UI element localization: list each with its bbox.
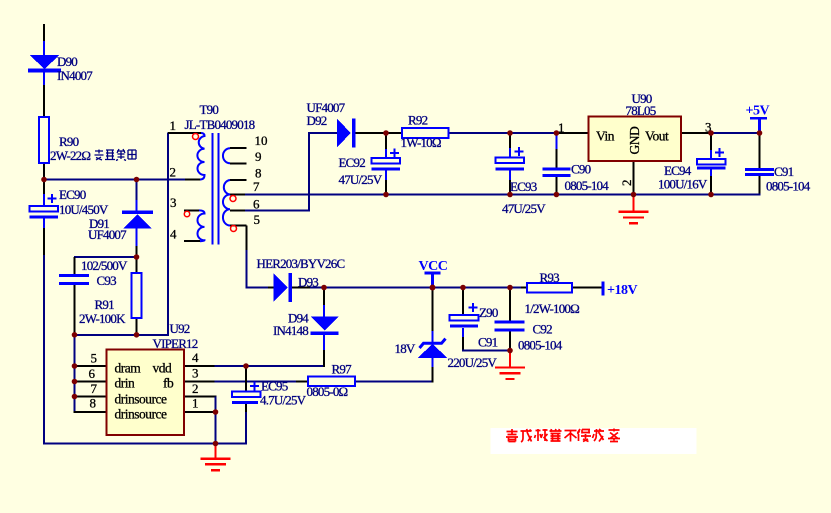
svg-text:EC95: EC95 [261, 379, 288, 394]
resistor R90 [39, 117, 49, 163]
wire snubber bottom horizontal [74, 334, 170, 336]
svg-text:EC90: EC90 [59, 187, 86, 202]
wire D91 leads [136, 180, 138, 202]
svg-text:2W-22Ω: 2W-22Ω [50, 148, 90, 163]
svg-text:R91: R91 [95, 297, 115, 312]
svg-text:0805-0Ω: 0805-0Ω [307, 384, 348, 399]
wire EC95 top lead [245, 366, 247, 392]
transformer T90 core [213, 133, 219, 245]
wire VCC stem [431, 273, 434, 288]
capacitor C92 [495, 320, 525, 331]
svg-text:IN4007: IN4007 [57, 68, 93, 83]
power +5V port bar [750, 117, 767, 120]
capacitor EC94 [697, 148, 726, 169]
wire D90 to R90 [43, 72, 45, 85]
diode D91 [122, 211, 153, 229]
ground at U90 pin2 [619, 195, 649, 223]
wire C91cap branch vertical [462, 288, 464, 316]
capacitor EC93 [496, 147, 525, 170]
transformer polarity dot pin5 [231, 226, 237, 232]
svg-text:EC93: EC93 [510, 179, 537, 194]
svg-text:102/500V: 102/500V [81, 258, 128, 273]
wire C93 top lead [74, 257, 76, 275]
svg-text:4: 4 [170, 227, 177, 242]
node EC94 top [708, 130, 714, 136]
svg-text:2: 2 [619, 180, 634, 187]
svg-text:+18V: +18V [607, 283, 637, 298]
wire vdd node to D94 [246, 365, 325, 367]
capacitor C91 220U [450, 303, 479, 328]
svg-text:2W-100K: 2W-100K [79, 311, 126, 326]
diode D94 [311, 317, 339, 336]
svg-text:VIPER12: VIPER12 [153, 336, 198, 351]
diode D93 [274, 273, 293, 302]
svg-text:3: 3 [192, 366, 199, 381]
svg-text:2: 2 [192, 381, 199, 396]
wire transformer pin5 down [246, 226, 248, 252]
wire EC94 leads [710, 133, 712, 151]
wire U90 pin3 to +5V [681, 132, 712, 134]
wire C90 leads [555, 133, 557, 150]
svg-text:C91: C91 [774, 164, 794, 179]
node C90 top [554, 130, 560, 136]
svg-text:Z90: Z90 [479, 305, 498, 320]
svg-text:8: 8 [90, 396, 97, 411]
svg-text:5: 5 [254, 212, 261, 227]
capacitor C91 output [745, 168, 774, 176]
wire EC95 bottom lead [245, 404, 247, 413]
svg-text:vdd: vdd [153, 361, 173, 376]
wire R90 to node A [43, 163, 45, 180]
svg-text:+5V: +5V [746, 104, 770, 119]
transformer polarity dot pin3 [184, 211, 189, 216]
wire bottom rail left [43, 443, 247, 445]
node +5V [757, 130, 763, 136]
transformer T90 winding pins 10-9 [223, 148, 247, 163]
svg-text:D90: D90 [57, 54, 77, 69]
wire AC input stub top [43, 24, 45, 41]
svg-text:47U/25V: 47U/25V [502, 201, 546, 216]
svg-text:D92: D92 [307, 113, 327, 128]
wire transformer pin1 vertical [167, 133, 169, 336]
wire EC92 leads [385, 133, 387, 150]
svg-text:18V: 18V [395, 341, 416, 356]
wire R93 right lead to +18V [572, 287, 602, 289]
svg-text:C91: C91 [478, 335, 498, 350]
wire R97 right to zener [355, 381, 434, 383]
node VCC [430, 285, 436, 291]
transformer polarity dot pin7 [230, 196, 236, 202]
svg-text:R90: R90 [59, 134, 79, 149]
wire C91 branch vertical [759, 133, 761, 168]
ground at U92 source [201, 444, 231, 470]
svg-text:R93: R93 [540, 270, 560, 285]
svg-text:10: 10 [255, 133, 268, 148]
node D91 top [134, 177, 140, 183]
wire pin2 down to ground rail [215, 397, 217, 445]
wire C92 branch vertical [509, 288, 511, 323]
node T90 pin numbers [170, 118, 268, 242]
wire EC93 leads [509, 133, 511, 149]
wire U92 pin7 lead [74, 396, 107, 398]
pin names U92 [115, 361, 174, 422]
wire node A to EC90 [43, 180, 45, 194]
svg-text:10U/450V: 10U/450V [59, 202, 109, 217]
wire D93 to VCC rail [292, 287, 311, 289]
svg-text:6: 6 [89, 366, 96, 381]
svg-text:D93: D93 [298, 275, 318, 290]
svg-text:1/2W-100Ω: 1/2W-100Ω [525, 301, 580, 316]
node U92 pin1 [213, 409, 219, 415]
svg-text:Vout: Vout [645, 129, 669, 144]
svg-text:7: 7 [253, 179, 260, 194]
svg-text:drin: drin [115, 376, 135, 391]
svg-text:47U/25V: 47U/25V [339, 172, 383, 187]
diode D92 [337, 119, 356, 148]
wire U92 pin2 lead [184, 396, 217, 398]
svg-text:dram: dram [115, 361, 142, 376]
node EC92 top [383, 130, 389, 136]
svg-text:220U/25V: 220U/25V [448, 355, 498, 370]
node snubber top [134, 254, 140, 260]
node U92 pin7 [72, 394, 78, 400]
node EC93 top [507, 130, 513, 136]
node U92 pin numbers [89, 350, 200, 411]
node EC93 bottom [507, 192, 513, 198]
svg-text:5: 5 [91, 351, 98, 366]
wire +5V stem [758, 118, 761, 134]
capacitor C93 [59, 274, 89, 285]
wire U92 pin1 lead [184, 411, 217, 413]
node ground rail U92 [213, 441, 219, 447]
transformer T90 primary winding pins 1-2 [168, 133, 205, 180]
ground at C91 C92 [495, 351, 525, 380]
svg-text:IN4148: IN4148 [273, 323, 308, 338]
resistor R92 [402, 128, 449, 138]
svg-text:C92: C92 [533, 322, 553, 337]
power +18V port bar [602, 282, 605, 296]
wire D90 top lead [43, 41, 45, 56]
op-amp U90 regulator 78L05 body [589, 117, 682, 162]
node D93 cathode [321, 285, 327, 291]
wire U92 pin5 lead [74, 365, 107, 367]
node A R90-EC90 [41, 177, 47, 183]
watermark red chinese text [506, 429, 620, 443]
svg-text:drinsource: drinsource [115, 392, 167, 407]
wire R91 bottom lead [136, 318, 138, 335]
capacitor EC95 [232, 382, 260, 405]
svg-text:4.7U/25V: 4.7U/25V [260, 393, 307, 408]
wire transformer pin6 to D92 [230, 210, 245, 212]
wire D94 branch vertical [323, 288, 325, 307]
wire U92 pin4 lead [184, 365, 215, 367]
node C90 bottom [554, 192, 560, 198]
svg-text:R92: R92 [408, 113, 428, 128]
wire U92 pin8 lead [74, 411, 107, 413]
wire EC90 down left rail [43, 218, 45, 228]
resistor R91 [132, 273, 142, 318]
power VCC port bar [425, 272, 441, 275]
node C91 220U top [460, 285, 466, 291]
svg-text:EC92: EC92 [339, 155, 366, 170]
node EC92 bottom [383, 192, 389, 198]
wire C91cap C92 bottom horizontal [462, 350, 511, 352]
wire zener branch vertical [432, 288, 434, 333]
node snubber bottom right [134, 332, 140, 338]
node C92 top [507, 285, 513, 291]
wire node A horizontal to transformer pin2 [43, 179, 185, 181]
svg-text:C90: C90 [571, 162, 591, 177]
svg-text:fb: fb [163, 376, 174, 391]
capacitor EC92 [372, 149, 401, 171]
zener Z90 [418, 339, 448, 358]
svg-text:HER203/BYV26C: HER203/BYV26C [257, 256, 345, 271]
wire C93 bottom lead [74, 285, 76, 336]
svg-text:78L05: 78L05 [626, 103, 656, 118]
svg-text:1: 1 [192, 396, 199, 411]
svg-text:UF4007: UF4007 [88, 227, 127, 242]
node U92 pin5 [72, 363, 78, 369]
svg-text:Vin: Vin [596, 129, 615, 144]
resistor R93 [527, 283, 572, 293]
svg-text:0805-104: 0805-104 [766, 179, 811, 194]
wire secondary ground rail [230, 194, 245, 196]
pin names U90 [596, 126, 669, 154]
svg-text:1W-10Ω: 1W-10Ω [401, 135, 441, 150]
svg-text:C93: C93 [97, 273, 117, 288]
svg-text:3: 3 [170, 195, 177, 210]
svg-text:T90: T90 [200, 102, 219, 117]
svg-text:4: 4 [192, 350, 199, 365]
svg-text:VCC: VCC [419, 259, 448, 274]
diode D90 [28, 55, 61, 72]
node snubber bottom left [72, 332, 78, 338]
resistor R97 [308, 377, 355, 387]
watermark white box [491, 428, 697, 454]
node U90 GND [631, 192, 637, 198]
svg-text:0805-104: 0805-104 [518, 338, 563, 353]
svg-text:R97: R97 [332, 362, 353, 377]
svg-text:9: 9 [255, 149, 262, 164]
wire R93 left lead [521, 287, 527, 289]
svg-text:100U/16V: 100U/16V [658, 177, 708, 192]
wire R92 to U90 pin1 [449, 132, 558, 134]
node C91 C92 gnd [507, 348, 513, 354]
wire R91 top lead [136, 257, 138, 273]
node vdd EC95 [243, 363, 249, 369]
wire U92 left bus [74, 334, 76, 413]
svg-text:GND: GND [627, 126, 642, 154]
svg-text:1: 1 [170, 118, 177, 133]
label R90 chinese value [95, 149, 137, 161]
svg-text:drinsource: drinsource [115, 407, 167, 422]
capacitor C90 [543, 168, 571, 178]
transistor U92 VIPER12 body [107, 350, 185, 436]
svg-text:JL-TB0409018: JL-TB0409018 [185, 117, 255, 132]
wire U92 pin3 lead fb [184, 381, 215, 383]
wire snubber top horizontal [74, 256, 138, 258]
svg-text:0805-104: 0805-104 [565, 178, 610, 193]
node EC94 bottom [708, 192, 714, 198]
capacitor EC90 [30, 194, 59, 219]
svg-text:6: 6 [253, 197, 260, 212]
svg-text:U92: U92 [170, 321, 190, 336]
node U90 pin numbers [558, 120, 712, 187]
wire U92 pin6 lead [74, 381, 107, 383]
wire D92 to R92 [355, 132, 402, 134]
svg-text:2: 2 [170, 165, 177, 180]
transformer T90 aux winding pins 3-4 [184, 210, 205, 241]
node U92 pin6 [72, 379, 78, 385]
transformer polarity dot pin1 [193, 134, 199, 140]
wire pin5 to D93 [246, 287, 268, 289]
svg-text:7: 7 [91, 381, 98, 396]
transformer T90 secondary winding pins 8-7-6-5 [223, 180, 247, 226]
wire U90 GND pin down [633, 161, 635, 196]
node junction dots [41, 130, 762, 446]
